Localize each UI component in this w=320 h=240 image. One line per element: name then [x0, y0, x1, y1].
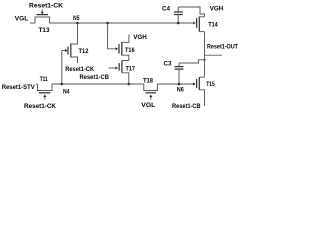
svg-text:Reset1-CK: Reset1-CK [24, 103, 56, 110]
transistor T14 [193, 17, 204, 32]
label Reset1-CB (bottom right, T15 source) [172, 103, 201, 110]
node junction dot N4 [61, 83, 64, 86]
svg-text:N6: N6 [177, 87, 184, 94]
transistor T16 [119, 35, 129, 61]
svg-text:T12: T12 [79, 48, 89, 55]
label Reset1-STV [2, 84, 36, 91]
wire Reset1-STV to T11 [36, 83, 38, 85]
transistor T18 [144, 84, 158, 93]
wire N4 to T12 gate [61, 51, 63, 85]
label T17 [125, 65, 135, 72]
node junction dot at T16 gate branch [106, 22, 109, 25]
svg-text:T13: T13 [39, 27, 50, 34]
node junction dot on output line [204, 59, 206, 61]
wire net N5 top horizontal [50, 22, 194, 24]
label Reset1-CB (middle, T17 gate) [79, 74, 109, 81]
svg-text:Reset1-OUT: Reset1-OUT [207, 44, 238, 51]
wire C3 top to output [179, 60, 205, 63]
label T15 [206, 81, 215, 88]
wire gate lead of T11 [43, 95, 46, 100]
label C4 [162, 6, 170, 13]
label VGL (top-left) [15, 16, 29, 23]
label VGL (bottom, gate of T18) [141, 102, 155, 109]
svg-text:N4: N4 [63, 89, 70, 96]
wire VGL to T13 source [30, 22, 35, 24]
label Reset1-CK (top, gate of T13) [29, 3, 63, 10]
svg-text:Reset1-CB: Reset1-CB [172, 103, 201, 110]
svg-text:T14: T14 [208, 22, 218, 29]
label T13 [39, 27, 50, 34]
wire output vertical Reset1-OUT [204, 32, 206, 77]
label T16 [125, 47, 135, 54]
node junction dot N6 [178, 83, 181, 86]
label T12 [79, 48, 89, 55]
transistor T11 [38, 84, 53, 93]
wire Reset1-OUT terminal stub [205, 54, 223, 56]
label N4 [63, 89, 70, 96]
label Reset1-CK (middle, T12 source) [65, 66, 94, 73]
label N5 [73, 15, 80, 22]
svg-text:T11: T11 [40, 76, 48, 83]
node junction dot at C4 bottom [177, 22, 180, 25]
wire branch N5 to T16 gate [108, 23, 118, 50]
svg-text:T15: T15 [206, 81, 215, 88]
capacitor C4 [174, 7, 183, 23]
wire gate lead of T13 with arrowhead [41, 10, 44, 15]
svg-text:Reset1-CK: Reset1-CK [29, 3, 63, 10]
transistor T15 [193, 77, 205, 106]
svg-text:VGH: VGH [133, 34, 147, 41]
svg-text:T17: T17 [125, 65, 135, 72]
svg-text:VGL: VGL [15, 16, 29, 23]
transistor T13 [35, 15, 50, 23]
wire C4 top to VGH / T14 drain [178, 7, 204, 17]
label VGH (middle) [133, 34, 147, 41]
svg-text:VGL: VGL [141, 102, 155, 109]
capacitor C3 [175, 63, 184, 84]
wire bottom net to T15 gate with arrowhead [157, 83, 195, 86]
label C3 [164, 60, 172, 67]
label Reset1-OUT [207, 44, 238, 51]
wire arrow to T17 gate [109, 67, 118, 70]
node junction dot T17 source on bottom wire [128, 83, 131, 86]
svg-text:N5: N5 [73, 15, 80, 22]
svg-text:T18: T18 [143, 77, 153, 84]
svg-text:VGH: VGH [210, 6, 224, 13]
label VGH (top-right) [210, 6, 224, 13]
transistor T12 [62, 23, 78, 63]
svg-text:T16: T16 [125, 47, 135, 54]
label N6 [177, 87, 184, 94]
svg-text:C3: C3 [164, 60, 172, 67]
label T14 [208, 22, 218, 29]
svg-text:Reset1-CB: Reset1-CB [79, 74, 109, 81]
node junction dot N5 at T12 drain [76, 22, 79, 25]
label T11 [40, 76, 48, 83]
label T18 [143, 77, 153, 84]
transistor T17 [119, 61, 129, 85]
wire gate lead of T18 [149, 95, 152, 100]
svg-text:C4: C4 [162, 6, 170, 13]
wire bottom net N4/N6 [52, 83, 144, 85]
svg-text:Reset1-CK: Reset1-CK [65, 66, 94, 73]
label Reset1-CK (bottom, gate of T11) [24, 103, 56, 110]
svg-text:Reset1-STV: Reset1-STV [2, 84, 36, 91]
